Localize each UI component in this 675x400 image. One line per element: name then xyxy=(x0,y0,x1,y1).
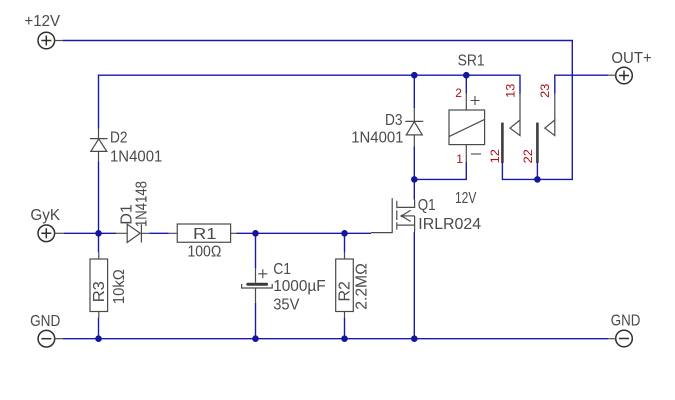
svg-text:10kΩ: 10kΩ xyxy=(111,269,128,304)
wire Q1 source to GND rail xyxy=(413,232,415,339)
svg-text:1N4001: 1N4001 xyxy=(110,149,162,166)
svg-text:SR1: SR1 xyxy=(458,53,485,70)
relay contact 12 armature bar xyxy=(501,123,504,163)
junction R2 bottom xyxy=(341,335,348,342)
wire C1 top xyxy=(255,233,257,268)
diode D3 xyxy=(405,108,423,146)
svg-text:D3: D3 xyxy=(385,112,403,129)
diode D1 xyxy=(116,224,149,242)
junction C1 top xyxy=(252,230,259,237)
junction Q1 source GND rail xyxy=(411,335,418,342)
junction D3 top rail xyxy=(411,72,418,79)
wire D2 to GyK node xyxy=(98,162,100,253)
svg-text:13: 13 xyxy=(504,83,518,98)
wire GyK to D1 xyxy=(64,232,116,234)
svg-text:IRLR024: IRLR024 xyxy=(418,216,481,233)
svg-text:OUT+: OUT+ xyxy=(611,50,651,67)
wire C1 bottom xyxy=(255,303,257,339)
svg-text:12V: 12V xyxy=(455,190,477,207)
svg-text:+12V: +12V xyxy=(24,13,60,30)
svg-text:23: 23 xyxy=(538,83,552,98)
svg-text:12: 12 xyxy=(488,149,502,164)
relay SR1 coil xyxy=(449,94,485,162)
svg-text:1N4001: 1N4001 xyxy=(351,130,403,147)
terminal GND right xyxy=(608,330,632,347)
wire coil rail y75 xyxy=(99,75,521,128)
wire OUT+ to contact23 xyxy=(555,75,609,93)
wire D3 bottom to Q1 drain xyxy=(413,147,415,200)
wire +12V top rail xyxy=(63,41,573,180)
svg-text:2: 2 xyxy=(455,86,462,100)
svg-text:1: 1 xyxy=(456,152,463,166)
svg-text:GND: GND xyxy=(611,313,641,330)
svg-text:R3: R3 xyxy=(91,281,108,302)
relay contact 22 armature bar xyxy=(536,123,539,163)
svg-text:R2: R2 xyxy=(337,281,354,302)
junction R2 top xyxy=(341,230,348,237)
wire coil pin2 xyxy=(465,75,467,93)
resistor R1 xyxy=(169,224,237,242)
junction D3/coil/Q1 drain xyxy=(411,176,418,183)
relay contact 23 fixed xyxy=(545,94,555,136)
wire coil pin1 to node xyxy=(414,162,466,179)
diode D2 xyxy=(90,129,108,162)
junction contact22 bottom xyxy=(534,176,541,183)
terminal GND left xyxy=(38,330,63,347)
junction GyK/D2/R3 xyxy=(95,230,102,237)
wire D3 top xyxy=(413,75,415,108)
junction R3/GND rail xyxy=(95,335,102,342)
resistor R3 xyxy=(90,252,108,317)
relay contact 13 fixed xyxy=(510,94,520,136)
capacitor C1 xyxy=(242,268,273,303)
svg-text:Q1: Q1 xyxy=(418,197,436,214)
svg-text:22: 22 xyxy=(521,149,535,164)
wire GND bottom rail xyxy=(63,338,608,340)
svg-text:C1: C1 xyxy=(273,261,291,278)
resistor R2 xyxy=(336,252,354,317)
junction coil pin2 rail xyxy=(463,72,470,79)
terminal +12V xyxy=(38,32,63,49)
wire R3 to GND rail xyxy=(98,318,100,339)
wire R2 bottom xyxy=(344,318,346,339)
svg-text:1N4148: 1N4148 xyxy=(134,181,151,227)
svg-text:1000µF: 1000µF xyxy=(273,278,326,295)
svg-text:2.2MΩ: 2.2MΩ xyxy=(353,263,370,310)
wire R1 to Q1 gate xyxy=(236,232,371,234)
terminal OUT+ xyxy=(608,67,632,84)
svg-text:GyK: GyK xyxy=(30,207,60,224)
svg-text:35V: 35V xyxy=(273,297,300,314)
wire D1 to R1 xyxy=(149,232,169,234)
terminal GyK xyxy=(38,225,64,242)
svg-text:GND: GND xyxy=(30,313,60,330)
wire R2 top xyxy=(344,233,346,252)
wire contact22 pin to bottom relay wire xyxy=(536,163,538,179)
transistor Q1 xyxy=(371,198,415,233)
svg-text:100Ω: 100Ω xyxy=(188,244,222,261)
svg-text:D2: D2 xyxy=(110,129,128,146)
junction C1 bottom xyxy=(252,335,259,342)
svg-text:R1: R1 xyxy=(193,226,217,243)
